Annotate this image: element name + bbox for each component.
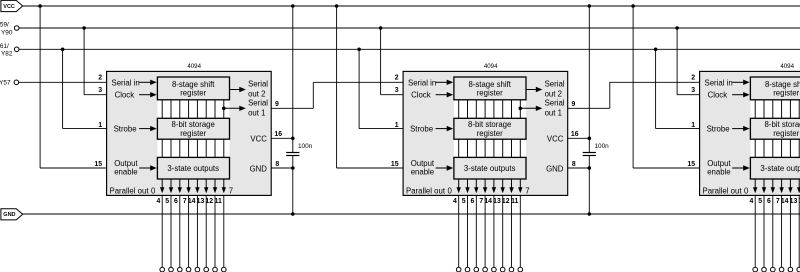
svg-text:3-state outputs: 3-state outputs [760, 164, 800, 173]
svg-text:register: register [773, 129, 799, 138]
svg-text:16: 16 [274, 131, 282, 138]
svg-text:2: 2 [395, 75, 399, 82]
capacitor C1 100n leads [292, 138, 294, 152]
junction U1 VCC riser on VCC line [291, 4, 295, 8]
svg-text:out 2: out 2 [545, 90, 562, 99]
U1 internal bus wires between registers [162, 100, 224, 158]
U1 8-bit storage register block [157, 118, 229, 139]
svg-text:5: 5 [462, 198, 466, 205]
svg-text:8-bit storage: 8-bit storage [172, 120, 215, 129]
svg-text:8-stage shift: 8-stage shift [468, 80, 511, 89]
U2 parallel output terminal pads [456, 267, 522, 272]
wire U1 VCC riser to VCC line [292, 6, 294, 138]
svg-text:6: 6 [767, 198, 771, 205]
svg-text:register: register [180, 129, 206, 138]
svg-text:Y82: Y82 [1, 51, 13, 58]
wire GND rail [22, 213, 800, 215]
svg-text:0: 0 [448, 187, 453, 196]
U2 parallel output arrows [457, 179, 523, 193]
junction U2 pin 16 [588, 137, 592, 141]
U1 8-stage shift register block [157, 77, 229, 100]
U1 serial out 1 junction dot on last bus line [222, 107, 226, 111]
wires U1 parallel outputs to pads [162, 195, 224, 267]
svg-text:Strobe: Strobe [707, 125, 730, 134]
svg-text:8: 8 [275, 161, 279, 168]
node Y61/Y82 terminal [14, 47, 19, 52]
svg-text:6: 6 [471, 198, 475, 205]
U3 8-bit storage register block [750, 118, 800, 139]
wire U2 serial in (pin 2) [313, 81, 403, 83]
junction U1 strobe on Y61/Y82 line [61, 48, 65, 52]
svg-text:Parallel out: Parallel out [406, 187, 446, 196]
svg-text:out 2: out 2 [248, 90, 265, 99]
U1 bottom pin numbers 4 5 6 7 14 13 12 11 [156, 198, 222, 205]
U2 8-stage shift register block [454, 77, 526, 100]
wire U2 clock from Y59/Y90 line [380, 28, 382, 95]
svg-text:11: 11 [215, 198, 222, 205]
svg-text:3: 3 [691, 87, 695, 94]
svg-text:Strobe: Strobe [410, 125, 433, 134]
wire U1 serial in (pin 2) [19, 81, 107, 83]
svg-text:9: 9 [275, 101, 279, 108]
junction U2 on GND line [588, 212, 592, 216]
wire U2 VCC pin 16 [568, 137, 590, 139]
U3 bottom pin numbers 4 5 6 7 14 13 12 11 [749, 198, 800, 205]
wire U3 strobe from Y61/Y82 line [655, 49, 657, 128]
svg-text:9: 9 [572, 101, 576, 108]
junction U1 output enable on VCC line [38, 4, 42, 8]
svg-text:enable: enable [114, 167, 137, 176]
svg-text:Y57: Y57 [0, 80, 11, 87]
wire U1 VCC pin 16 [271, 137, 293, 139]
svg-text:8-bit storage: 8-bit storage [765, 120, 800, 129]
junction U1 pin 8 [291, 166, 295, 170]
junction U3 strobe on Y61/Y82 line [654, 48, 658, 52]
svg-text:0: 0 [744, 187, 749, 196]
svg-text:8: 8 [572, 161, 576, 168]
svg-text:4094: 4094 [780, 63, 794, 70]
svg-text:GND: GND [546, 164, 564, 173]
svg-text:3: 3 [395, 87, 399, 94]
svg-text:100n: 100n [298, 143, 313, 150]
wire Y59/Y90 clock rail [19, 27, 800, 29]
wires U3 parallel outputs to pads [755, 195, 800, 267]
svg-text:8-bit storage: 8-bit storage [468, 120, 511, 129]
U3 internal bus background strips [750, 100, 800, 119]
svg-text:Parallel out: Parallel out [703, 187, 743, 196]
wire Y61/Y82 strobe rail [19, 48, 800, 50]
svg-text:6: 6 [174, 198, 178, 205]
svg-text:4094: 4094 [187, 63, 201, 70]
wire U3 output enable from VCC line [632, 6, 634, 168]
svg-text:2: 2 [691, 75, 695, 82]
svg-text:enable: enable [707, 167, 730, 176]
wire U1 capacitor to GND line [292, 168, 294, 214]
svg-text:register: register [477, 129, 503, 138]
U2 serial out 1 junction dot on last bus line [519, 107, 523, 111]
svg-text:Serial in: Serial in [408, 78, 436, 87]
svg-text:Clock: Clock [411, 91, 431, 100]
wire U1 serial out 1 (pin 9) to next stage riser [271, 107, 313, 109]
svg-text:1: 1 [98, 122, 102, 129]
svg-text:out 1: out 1 [545, 108, 562, 117]
U3 parallel output arrows [753, 179, 800, 193]
svg-text:3-state outputs: 3-state outputs [464, 164, 516, 173]
IC U3 4094 shift register body [700, 71, 800, 195]
wires U2 parallel outputs to pads [459, 195, 521, 267]
svg-text:Clock: Clock [708, 91, 728, 100]
wire U3 clock from Y59/Y90 line [676, 28, 678, 95]
svg-text:Y61/: Y61/ [0, 43, 9, 50]
svg-text:11: 11 [511, 198, 518, 205]
svg-text:Parallel out: Parallel out [110, 187, 150, 196]
svg-text:Clock: Clock [115, 91, 135, 100]
svg-text:3: 3 [98, 87, 102, 94]
svg-text:4: 4 [453, 198, 457, 205]
U2 pin label Serial out 2 with arrow [527, 89, 537, 91]
svg-text:100n: 100n [595, 143, 610, 150]
U1 pin label Serial out 2 with arrow [230, 89, 240, 91]
U2 pin label Serial out 1 with arrow (pin 9) [520, 107, 537, 109]
U2 8-bit storage register block [454, 118, 526, 139]
wire U2 serial out 1 (pin 9) to next stage riser [568, 107, 610, 109]
svg-text:GND: GND [3, 212, 15, 218]
svg-text:5: 5 [758, 198, 762, 205]
U1 internal bus background strips [157, 100, 229, 119]
svg-text:Serial: Serial [248, 80, 268, 89]
svg-text:VCC: VCC [250, 134, 267, 143]
svg-text:enable: enable [411, 167, 434, 176]
IC U2 4094 shift register body [403, 71, 568, 195]
VCC power flag [1, 0, 23, 11]
svg-text:2: 2 [98, 75, 102, 82]
junction U2 clock on Y59/Y90 line [379, 26, 383, 30]
IC U1 4094 shift register body [107, 71, 272, 195]
svg-text:7: 7 [776, 198, 780, 205]
capacitor C1 100n plates [286, 152, 299, 154]
wire U2 capacitor to GND line [588, 168, 590, 214]
wire U1 GND pin 8 [271, 167, 293, 169]
wire U1 clock from Y59/Y90 line [83, 28, 85, 95]
svg-text:VCC: VCC [3, 4, 15, 10]
U2 3-state outputs block [454, 157, 526, 179]
U3 internal bus wires between registers [755, 100, 800, 158]
svg-text:7: 7 [183, 198, 187, 205]
junction U1 pin 16 [291, 137, 295, 141]
svg-text:1: 1 [395, 122, 399, 129]
svg-text:1: 1 [691, 122, 695, 129]
junction U3 output enable on VCC line [631, 4, 635, 8]
U3 8-stage shift register block [750, 77, 800, 100]
U1 parallel output arrows [160, 179, 226, 193]
svg-text:8-stage shift: 8-stage shift [172, 80, 215, 89]
svg-text:GND: GND [250, 164, 268, 173]
svg-text:register: register [180, 89, 206, 98]
svg-text:15: 15 [94, 161, 102, 168]
svg-text:0: 0 [151, 187, 156, 196]
svg-text:Y59/: Y59/ [0, 22, 9, 29]
svg-text:out 1: out 1 [248, 108, 265, 117]
wire U2 GND pin 8 [568, 167, 590, 169]
wire U2 VCC riser to VCC line [588, 6, 590, 138]
svg-text:Serial: Serial [545, 80, 565, 89]
junction U2 pin 8 [588, 166, 592, 170]
junction U3 clock on Y59/Y90 line [675, 26, 679, 30]
svg-text:8-stage shift: 8-stage shift [765, 80, 800, 89]
U2 internal bus wires between registers [459, 100, 521, 158]
svg-text:4: 4 [749, 198, 753, 205]
svg-text:4: 4 [156, 198, 160, 205]
node Y59/Y90 terminal [14, 26, 19, 31]
svg-text:register: register [773, 89, 799, 98]
svg-text:Serial in: Serial in [705, 78, 733, 87]
GND power flag [1, 209, 23, 220]
wire U2 output enable from VCC line [336, 6, 338, 168]
svg-text:3-state outputs: 3-state outputs [167, 164, 219, 173]
svg-text:7: 7 [229, 187, 233, 196]
svg-text:15: 15 [687, 161, 695, 168]
U1 3-state outputs block [157, 157, 229, 179]
U1 parallel output terminal pads [160, 267, 226, 272]
wire U2 strobe from Y61/Y82 line [358, 49, 360, 128]
svg-text:7: 7 [525, 187, 529, 196]
junction U2 VCC riser on VCC line [588, 4, 592, 8]
svg-text:register: register [477, 89, 503, 98]
svg-text:7: 7 [479, 198, 483, 205]
svg-text:Serial: Serial [545, 98, 565, 107]
U2 internal bus background strips [454, 100, 526, 119]
junction U2 strobe on Y61/Y82 line [357, 48, 361, 52]
svg-text:5: 5 [165, 198, 169, 205]
svg-text:Serial: Serial [248, 98, 268, 107]
node Y57 terminal [14, 80, 19, 85]
wire U1 strobe from Y61/Y82 line [62, 49, 64, 128]
svg-text:Serial in: Serial in [112, 78, 140, 87]
svg-text:VCC: VCC [547, 134, 564, 143]
U3 3-state outputs block [750, 157, 800, 179]
wire U1 output enable from VCC line [39, 6, 41, 168]
capacitor C2 100n leads [588, 138, 590, 152]
svg-text:15: 15 [391, 161, 399, 168]
U2 bottom pin numbers 4 5 6 7 14 13 12 11 [453, 198, 519, 205]
capacitor C2 100n plates [583, 152, 596, 154]
junction U1 clock on Y59/Y90 line [82, 26, 86, 30]
svg-text:Strobe: Strobe [114, 125, 137, 134]
wire VCC rail [23, 5, 800, 7]
svg-text:4094: 4094 [484, 63, 498, 70]
svg-text:Y90: Y90 [1, 29, 13, 36]
U3 parallel output terminal pads [753, 267, 800, 272]
junction U1 on GND line [291, 212, 295, 216]
wire U3 serial in (pin 2) [610, 81, 700, 83]
svg-text:16: 16 [571, 131, 579, 138]
junction U2 output enable on VCC line [335, 4, 339, 8]
U1 pin label Serial out 1 with arrow (pin 9) [224, 107, 241, 109]
